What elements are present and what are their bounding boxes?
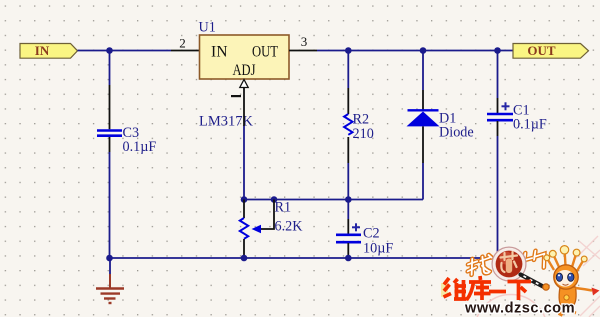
diode D1	[407, 110, 440, 126]
R1 pin lower	[243, 239, 245, 258]
magnifier ring	[492, 247, 526, 281]
svg-text:3: 3	[301, 34, 308, 49]
node R2 top	[345, 47, 352, 54]
C3 pin lower	[109, 137, 111, 152]
node ground R1	[241, 255, 248, 262]
capacitor C2 polarized	[336, 223, 361, 242]
wire ground stem	[109, 258, 111, 274]
node wiper	[271, 196, 278, 203]
svg-text:10µF: 10µF	[363, 241, 393, 257]
svg-text:2: 2	[179, 36, 186, 51]
watermark	[441, 236, 600, 317]
wire C3 branch lower	[109, 152, 111, 258]
svg-text:R1: R1	[275, 200, 292, 216]
faint pink circle	[475, 295, 548, 317]
mascot head	[554, 265, 578, 289]
node R1 top	[241, 196, 248, 203]
char xin inside glass	[501, 252, 518, 272]
wire IN to node A	[78, 50, 172, 52]
wire C3 branch upper	[109, 51, 111, 86]
D1 pin lower	[422, 126, 424, 163]
svg-text:Diode: Diode	[439, 125, 474, 141]
port IN	[20, 43, 78, 58]
node R2 bottom	[345, 196, 352, 203]
op-amp U1 regulator body	[200, 35, 290, 79]
svg-text:OUT: OUT	[527, 43, 556, 58]
wire D1 branch upper	[422, 51, 424, 91]
wire ADJ down	[243, 126, 245, 200]
node A junction	[106, 47, 113, 54]
svg-text:6.2K: 6.2K	[275, 219, 304, 235]
char zhao (find) white with orange outline	[468, 255, 492, 276]
C1 pin upper	[497, 98, 499, 113]
C1 pin lower	[497, 121, 499, 136]
svg-text:0.1µF: 0.1µF	[513, 117, 547, 133]
wire pin3 to OUT	[317, 50, 513, 52]
svg-text:210: 210	[353, 126, 374, 142]
resistor R2	[344, 114, 352, 135]
R2 pin lower	[347, 137, 349, 163]
svg-text:OUT: OUT	[252, 44, 278, 61]
svg-text:www.dzsc.com: www.dzsc.com	[464, 301, 575, 317]
port OUT	[513, 43, 589, 58]
mascot crown	[548, 252, 584, 271]
wire R2 branch lower	[347, 163, 349, 200]
U1 ADJ pin stub	[243, 88, 245, 127]
C2 pin upper	[347, 219, 349, 234]
R1 pin upper	[243, 200, 245, 219]
node ground C3	[106, 255, 113, 262]
C3 pin upper	[109, 85, 111, 129]
ground	[96, 274, 124, 303]
svg-text:LM317K: LM317K	[199, 114, 254, 130]
yellow square accent	[441, 283, 448, 297]
svg-text:ADJ: ADJ	[233, 62, 256, 79]
wire node A to U1 pin 2 (pin stub)	[171, 50, 200, 52]
pink ribbon lines	[576, 236, 600, 317]
char pian (chip) white with orange outline	[524, 250, 545, 270]
wire R2 branch upper	[347, 51, 349, 89]
magnifier handle	[521, 275, 545, 288]
wire C1 branch upper	[497, 51, 499, 99]
U1 pin 3 stub	[289, 50, 317, 52]
svg-text:IN: IN	[211, 44, 228, 61]
U1 ADJ pin arrow	[240, 80, 248, 88]
potentiometer R1	[240, 218, 248, 239]
mascot right arm with brush	[576, 288, 593, 291]
R1 wiper arm	[252, 200, 275, 234]
svg-text:U1: U1	[199, 20, 216, 36]
svg-text:IN: IN	[35, 43, 50, 58]
R2 pin upper	[347, 88, 349, 114]
wire D1 branch lower	[422, 163, 424, 200]
pin number 1 (rotated)	[231, 95, 241, 97]
svg-text:0.1µF: 0.1µF	[123, 139, 157, 155]
wire C1 branch lower	[110, 136, 498, 258]
wire C2 branch upper	[347, 200, 349, 220]
node D1 top	[420, 47, 427, 54]
red chars wei ku yi xia	[444, 276, 532, 300]
capacitor C3	[97, 131, 122, 136]
wire ADJ net horizontal	[244, 199, 423, 201]
node C1 top	[494, 47, 501, 54]
D1 pin upper	[422, 90, 424, 110]
node ground C2	[345, 255, 352, 262]
C2 pin lower	[347, 243, 349, 256]
svg-text:C2: C2	[363, 226, 380, 242]
mascot left hand	[543, 284, 549, 290]
capacitor C1 polarized	[487, 102, 513, 120]
mascot body	[559, 287, 576, 306]
